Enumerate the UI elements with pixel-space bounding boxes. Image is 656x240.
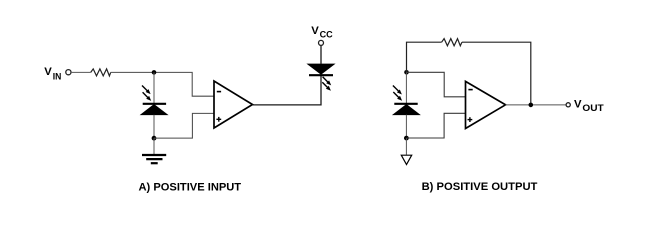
photodiode D1 light arrow 1 <box>142 86 151 95</box>
node B1 junction dot <box>404 70 409 75</box>
op-amp U2 plus pin label <box>468 117 473 122</box>
svg-text:B) POSITIVE OUTPUT: B) POSITIVE OUTPUT <box>422 181 538 193</box>
wire VIN terminal to resistor R1 <box>71 71 91 73</box>
wire node B2 to op-amp U2 plus step <box>406 113 466 138</box>
wire node B2 to ground <box>405 138 407 155</box>
wire op-amp U2 output to terminal VOUT <box>506 104 566 106</box>
wire node B1 down to photodiode D3 <box>405 72 407 104</box>
photodiode D3 light arrow 1 <box>393 86 402 95</box>
wire resistor R1 to node A1 and op-amp minus step <box>111 72 214 96</box>
wire node A2 to ground <box>153 138 155 154</box>
node A1 junction dot <box>152 70 157 75</box>
svg-text:OUT: OUT <box>582 103 604 113</box>
node B3 junction dot <box>529 103 534 108</box>
photodiode D1 triangle <box>141 105 168 115</box>
svg-text:A) POSITIVE INPUT: A) POSITIVE INPUT <box>139 182 242 194</box>
terminal VOUT <box>566 103 570 107</box>
LED D2 light arrow 1 <box>323 77 332 86</box>
terminal VCC <box>319 40 324 45</box>
wire op-amp U1 output to LED D2 <box>253 75 322 105</box>
wire node A2 to op-amp plus step <box>154 113 214 138</box>
ground B (open triangle) <box>401 155 411 164</box>
op-amp U1 plus pin label <box>216 117 221 122</box>
op-amp U1 minus pin label <box>217 91 221 93</box>
wire node A1 down to photodiode D1 <box>153 72 155 103</box>
photodiode D3 light arrow 2 <box>393 92 402 101</box>
wire node B1 to op-amp U2 minus step <box>407 72 467 97</box>
photodiode D1 light arrow 2 <box>143 92 152 101</box>
wire LED D2 to VCC terminal <box>320 45 322 64</box>
LED D2 cathode bar <box>309 74 333 76</box>
wire photodiode D1 to node A2 <box>153 115 155 139</box>
op-amp U1 <box>214 81 253 128</box>
wire photodiode D3 to node B2 <box>405 115 407 139</box>
node B2 junction dot <box>404 136 409 141</box>
photodiode D3 triangle <box>393 105 420 115</box>
wire node B1 up to feedback resistor R2 <box>407 42 442 72</box>
svg-text:CC: CC <box>320 29 333 39</box>
resistor R1 <box>91 69 111 76</box>
svg-text:V: V <box>311 25 319 37</box>
svg-text:IN: IN <box>53 71 62 81</box>
resistor R2 <box>442 39 462 46</box>
terminal VIN <box>66 70 71 75</box>
photodiode D1 cathode bar <box>143 103 166 105</box>
ground A <box>142 155 166 163</box>
photodiode D3 cathode bar <box>394 103 417 105</box>
svg-text:V: V <box>44 66 52 78</box>
svg-text:V: V <box>574 99 582 111</box>
wire resistor R2 to op-amp U2 output node B3 <box>462 42 531 105</box>
LED D2 triangle <box>308 64 335 74</box>
op-amp U2 minus pin label <box>468 89 472 91</box>
node A2 junction dot <box>152 136 157 141</box>
LED D2 light arrow 2 <box>322 82 331 91</box>
op-amp U2 <box>466 81 506 128</box>
